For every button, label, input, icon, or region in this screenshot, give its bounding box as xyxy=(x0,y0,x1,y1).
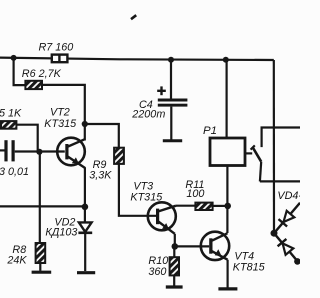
svg-text:R10: R10 xyxy=(148,255,168,267)
resistor R10 360 xyxy=(170,257,179,275)
capacitor C3 0,01 xyxy=(4,140,14,161)
transistor VT2 KT315 xyxy=(57,138,85,168)
node: collector / R9 junction xyxy=(82,121,88,127)
svg-text:3 0,01: 3 0,01 xyxy=(0,166,29,178)
node: emitter / VD2 junction xyxy=(82,204,89,211)
svg-text:VT3: VT3 xyxy=(133,180,153,192)
svg-text:KT815: KT815 xyxy=(233,262,266,274)
resistor R9 3,3K xyxy=(114,148,124,164)
wire: diagonal to diode 2 xyxy=(274,233,298,262)
svg-text:KT315: KT315 xyxy=(44,118,77,130)
resistor R11 100 xyxy=(195,203,212,210)
terminal bar under VT4 emitter xyxy=(218,287,237,290)
node: R11 / relay / VT4 collector junction xyxy=(224,203,231,210)
svg-text:24K: 24K xyxy=(6,255,27,267)
wire: fixed contact from y127 wire xyxy=(262,128,300,148)
svg-text:2200m: 2200m xyxy=(131,109,165,121)
wire: VT4 base from R10 node xyxy=(175,245,209,247)
terminal bar under R10 xyxy=(166,285,183,288)
svg-text:100: 100 xyxy=(186,188,204,200)
terminal bar under C4 xyxy=(163,139,182,142)
wire: junction to R9 top xyxy=(85,124,119,148)
resistor 1K (R5) xyxy=(1,121,16,129)
svg-text:P1: P1 xyxy=(203,125,217,137)
svg-text:3,3K: 3,3K xyxy=(89,170,112,182)
polarity plus of C4 xyxy=(157,86,166,95)
wire: rail down to R6 xyxy=(14,58,26,85)
wire: R8 to bottom terminal xyxy=(39,263,41,271)
svg-text:R6 2,7K: R6 2,7K xyxy=(22,68,62,80)
wire: +V top rail xyxy=(0,58,274,60)
wire: left rail at y207 xyxy=(0,205,85,207)
node: diode chain top junction xyxy=(271,230,278,237)
wire: node to R10 xyxy=(173,246,175,257)
diode VD2 KD103 xyxy=(78,207,92,271)
wire: rail down to relay coil xyxy=(226,60,228,138)
capacitor C4 2200m xyxy=(158,59,188,140)
node: emitter / R10 / VT4 base junction xyxy=(172,243,179,250)
wire: R9 bottom to VT3 base xyxy=(119,164,156,216)
diode VD4 (upper) xyxy=(279,211,295,227)
wire: C3 to base node xyxy=(15,150,65,152)
svg-text:360: 360 xyxy=(148,266,166,278)
wire: R11 to relay branch node xyxy=(213,205,228,207)
terminal bar under R8 xyxy=(32,271,52,274)
svg-text:5 1K: 5 1K xyxy=(0,108,22,120)
wire: diagonal into VD4 diode 1 xyxy=(274,203,300,233)
node: VT2 base / divider junction xyxy=(36,149,42,155)
wire: y181 wire to right edge xyxy=(260,180,300,182)
wire: R6 to VT2 collector riser xyxy=(42,85,85,141)
wire: relay coil to junction and VT4 collector xyxy=(226,166,228,234)
resistor R7 160 xyxy=(52,55,68,63)
transistor VT4 KT815 xyxy=(201,232,229,260)
svg-text:VT2: VT2 xyxy=(50,107,70,119)
wire: VT2 emitter drop xyxy=(84,167,86,207)
wire: 1K resistor lead down to base node xyxy=(16,125,37,152)
node: relay rail junction xyxy=(223,57,229,63)
wire: R10 to bottom terminal xyxy=(173,275,175,285)
ink speck xyxy=(131,15,136,19)
terminal bar under VD2 xyxy=(77,271,95,274)
wire: base node down to R8 xyxy=(39,152,41,243)
relay contact blade xyxy=(252,147,261,162)
diode VD5 (lower) xyxy=(278,239,294,255)
relay contact blade serif xyxy=(251,145,255,149)
relay coil P1 xyxy=(210,138,245,166)
wire: VT3 emitter drop to R10 node xyxy=(174,234,176,247)
svg-text:VD4-: VD4- xyxy=(277,190,300,202)
resistor R8 24K xyxy=(36,243,46,263)
wire: VT4 emitter drop xyxy=(227,260,229,288)
svg-text:KT315: KT315 xyxy=(130,192,163,204)
node: rail junction to R6 xyxy=(11,55,17,61)
svg-text:КД103: КД103 xyxy=(45,227,77,239)
resistor R6 2,7K xyxy=(25,81,42,89)
svg-text:R7 160: R7 160 xyxy=(39,42,74,54)
transistor VT3 KT315 xyxy=(148,202,176,234)
node: C4 rail junction xyxy=(168,57,174,63)
wire: relay contact stub xyxy=(245,152,252,154)
wire: blade down to y181 wire xyxy=(260,162,261,182)
wire: VT3 collector to R11 xyxy=(176,205,195,207)
node: lower diode end xyxy=(294,258,301,265)
capacitor C3 left lead xyxy=(0,149,5,151)
wire: top rail right drop to diode node xyxy=(273,60,275,233)
